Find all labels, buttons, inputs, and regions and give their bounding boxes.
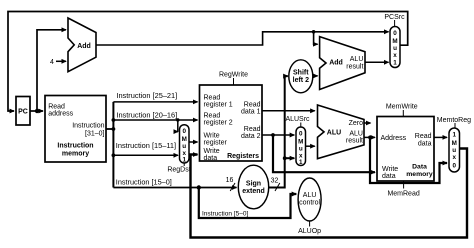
svg-text:PC: PC xyxy=(18,109,28,116)
svg-text:MemtoReg: MemtoReg xyxy=(437,117,471,124)
svg-text:1: 1 xyxy=(182,157,186,164)
svg-text:PCSrc: PCSrc xyxy=(384,14,405,21)
svg-text:data: data xyxy=(382,173,396,180)
svg-text:RegDst: RegDst xyxy=(167,167,190,174)
svg-text:data: data xyxy=(418,141,432,148)
svg-text:data 2: data 2 xyxy=(241,133,261,140)
svg-text:4: 4 xyxy=(50,59,54,66)
svg-text:Instruction [5–0]: Instruction [5–0] xyxy=(202,211,248,218)
svg-text:u: u xyxy=(299,146,303,153)
svg-text:register 2: register 2 xyxy=(204,120,233,127)
svg-text:Write: Write xyxy=(204,148,220,155)
svg-text:register: register xyxy=(204,140,228,147)
svg-text:0: 0 xyxy=(299,131,303,138)
svg-text:left 2: left 2 xyxy=(293,77,309,84)
svg-text:ALU: ALU xyxy=(350,56,364,63)
svg-text:data 1: data 1 xyxy=(241,109,261,116)
svg-text:Instruction [25–21]: Instruction [25–21] xyxy=(116,91,177,100)
svg-text:Add: Add xyxy=(329,60,343,67)
svg-text:Read: Read xyxy=(204,113,221,120)
svg-text:Read: Read xyxy=(48,104,65,111)
svg-text:Data: Data xyxy=(412,164,427,171)
svg-text:0: 0 xyxy=(452,163,456,170)
svg-text:M: M xyxy=(182,136,187,143)
svg-text:ALU: ALU xyxy=(349,131,363,138)
svg-text:0: 0 xyxy=(182,128,186,135)
svg-text:Write: Write xyxy=(382,166,398,173)
svg-text:M: M xyxy=(298,139,303,146)
svg-text:x: x xyxy=(393,52,397,59)
svg-text:memory: memory xyxy=(62,151,89,158)
svg-text:Instruction [15–0]: Instruction [15–0] xyxy=(116,178,172,187)
svg-text:16: 16 xyxy=(226,177,234,184)
svg-text:MemRead: MemRead xyxy=(387,191,419,198)
svg-text:Read: Read xyxy=(415,133,432,140)
svg-text:result: result xyxy=(346,64,363,71)
svg-text:Sign: Sign xyxy=(246,181,261,188)
svg-text:M: M xyxy=(392,38,397,45)
svg-text:x: x xyxy=(452,154,456,161)
svg-text:Instruction [20–16]: Instruction [20–16] xyxy=(116,111,177,120)
svg-text:0: 0 xyxy=(393,30,397,37)
svg-text:Write: Write xyxy=(204,133,220,140)
svg-text:register 1: register 1 xyxy=(204,102,233,109)
svg-text:32: 32 xyxy=(271,178,279,185)
svg-text:u: u xyxy=(182,143,186,150)
svg-text:ALU: ALU xyxy=(327,130,341,137)
svg-text:Shift: Shift xyxy=(293,70,309,77)
svg-text:ALUSrc: ALUSrc xyxy=(285,116,310,123)
svg-text:Instruction [15–11]: Instruction [15–11] xyxy=(116,141,176,150)
svg-text:Registers: Registers xyxy=(227,153,259,160)
svg-text:Instruction: Instruction xyxy=(72,123,104,130)
svg-text:Read: Read xyxy=(244,102,261,109)
svg-text:ALU: ALU xyxy=(303,192,317,199)
svg-text:RegWrite: RegWrite xyxy=(219,72,248,79)
svg-text:[31–0]: [31–0] xyxy=(85,131,105,138)
svg-text:M: M xyxy=(452,140,457,147)
svg-text:1: 1 xyxy=(452,132,456,139)
svg-text:extend: extend xyxy=(242,188,265,195)
svg-text:MemWrite: MemWrite xyxy=(386,104,418,111)
svg-text:address: address xyxy=(48,111,73,118)
svg-text:data: data xyxy=(204,155,218,162)
svg-text:control: control xyxy=(299,200,320,207)
svg-text:Add: Add xyxy=(77,43,91,50)
svg-text:memory: memory xyxy=(406,171,433,178)
svg-text:ALUOp: ALUOp xyxy=(298,228,321,235)
svg-text:Read: Read xyxy=(204,95,221,102)
svg-text:u: u xyxy=(393,45,397,52)
svg-text:Instruction: Instruction xyxy=(57,143,93,150)
svg-text:result: result xyxy=(346,138,363,145)
svg-text:1: 1 xyxy=(393,60,397,67)
svg-text:Address: Address xyxy=(381,135,407,142)
svg-text:1: 1 xyxy=(299,159,303,166)
svg-text:Read: Read xyxy=(244,126,261,133)
svg-text:u: u xyxy=(452,147,456,154)
svg-text:Zero: Zero xyxy=(349,120,364,127)
